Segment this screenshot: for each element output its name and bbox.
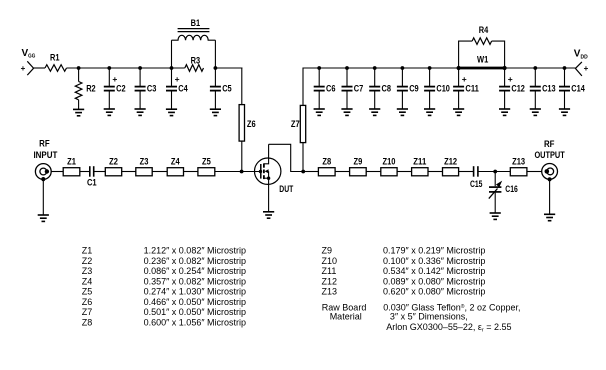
table row Z8 bbox=[82, 317, 246, 327]
ground (R2) bbox=[73, 109, 84, 115]
microstrip Z3 bbox=[136, 156, 152, 176]
node C14 junction bbox=[563, 66, 567, 70]
table row Z10 bbox=[322, 256, 486, 266]
capacitor C16 (variable) bbox=[489, 172, 518, 214]
svg-text:Z10: Z10 bbox=[383, 156, 396, 166]
svg-text:C13: C13 bbox=[542, 83, 556, 93]
svg-text:C4: C4 bbox=[178, 83, 188, 93]
svg-text:+: + bbox=[21, 64, 26, 73]
svg-text:C1: C1 bbox=[87, 178, 97, 188]
table row Raw Board Material line 2 bbox=[330, 312, 468, 322]
wire Z1 to C1 bbox=[80, 171, 90, 173]
capacitor C5 bbox=[210, 68, 232, 109]
microstrip Z5 bbox=[198, 156, 215, 176]
table row Z5 bbox=[82, 287, 246, 297]
wire Z3 to Z4 bbox=[152, 171, 167, 173]
node C13 junction bbox=[533, 66, 537, 70]
svg-text:1.212″ x 0.082″ Microstrip: 1.212″ x 0.082″ Microstrip bbox=[144, 246, 246, 256]
VGG chevron connector bbox=[27, 61, 33, 75]
wire VGG to R1 bbox=[34, 67, 45, 69]
capacitor C13 bbox=[530, 68, 556, 109]
svg-text:DUT: DUT bbox=[279, 184, 293, 194]
wire input connector to ground bbox=[42, 179, 44, 215]
ground (C5) bbox=[210, 109, 221, 115]
wire VDD rail to Z7 bbox=[302, 68, 304, 106]
ground (C6) bbox=[314, 109, 325, 115]
svg-text:Z1: Z1 bbox=[67, 156, 76, 166]
microstrip Z6 bbox=[239, 105, 256, 142]
capacitor C4 bbox=[166, 68, 188, 109]
ground (RF input) bbox=[38, 215, 49, 221]
svg-text:0.236″ x 0.082″ Microstrip: 0.236″ x 0.082″ Microstrip bbox=[144, 256, 246, 266]
ground (C11) bbox=[453, 109, 464, 115]
resistor R2 bbox=[75, 68, 95, 109]
VDD chevron connector bbox=[575, 62, 582, 76]
svg-text:Z11: Z11 bbox=[413, 156, 426, 166]
microstrip Z11 bbox=[412, 156, 428, 176]
ground (C14) bbox=[559, 109, 570, 115]
wire C5 junction to Z6 bbox=[215, 67, 242, 69]
svg-text:0.600″ x 1.056″ Microstrip: 0.600″ x 1.056″ Microstrip bbox=[144, 317, 246, 327]
capacitor C12 bbox=[499, 68, 525, 109]
svg-text:Z4: Z4 bbox=[82, 276, 93, 286]
svg-text:Z9: Z9 bbox=[322, 246, 333, 256]
resistor R1 bbox=[45, 53, 67, 72]
wire Z8 to Z9 bbox=[335, 171, 350, 173]
svg-text:Z2: Z2 bbox=[109, 156, 118, 166]
svg-text:Z2: Z2 bbox=[82, 256, 93, 266]
svg-text:Z5: Z5 bbox=[82, 287, 93, 297]
svg-text:OUTPUT: OUTPUT bbox=[534, 150, 565, 160]
node C4/B1 junction bbox=[170, 66, 174, 70]
node C12/W1/R4 junction bbox=[503, 66, 507, 70]
table row Z12 bbox=[322, 276, 486, 286]
microstrip Z7 bbox=[291, 105, 306, 142]
table row Z3 bbox=[82, 266, 246, 276]
microstrip Z1 bbox=[63, 156, 80, 176]
svg-text:Z10: Z10 bbox=[322, 256, 338, 266]
capacitor C3 bbox=[135, 68, 157, 109]
svg-text:Z4: Z4 bbox=[171, 156, 180, 166]
wire R4 loop right bbox=[492, 41, 505, 68]
node C16 junction bbox=[493, 170, 497, 174]
wire Z11 to Z12 bbox=[428, 171, 443, 173]
svg-text:C8: C8 bbox=[382, 83, 392, 93]
capacitor C14 bbox=[559, 68, 585, 109]
svg-text:+: + bbox=[175, 74, 180, 84]
wire Z6 to gate line bbox=[241, 141, 243, 171]
node drain/Z7 junction bbox=[301, 170, 305, 174]
table row Z4 bbox=[82, 276, 246, 286]
svg-text:+: + bbox=[112, 74, 117, 84]
svg-text:0.274″ x 1.030″ Microstrip: 0.274″ x 1.030″ Microstrip bbox=[144, 287, 246, 297]
svg-text:RF: RF bbox=[39, 139, 50, 149]
ground (C3) bbox=[135, 109, 146, 115]
table row Z1 bbox=[82, 246, 246, 256]
wire C15 to Z13 bbox=[478, 171, 510, 173]
svg-text:R4: R4 bbox=[479, 25, 489, 35]
ground (C13) bbox=[530, 109, 541, 115]
resistor R4 bbox=[472, 25, 492, 44]
svg-text:C15: C15 bbox=[470, 179, 483, 189]
svg-text:C9: C9 bbox=[409, 83, 419, 93]
svg-text:C5: C5 bbox=[222, 83, 232, 93]
ground (C16) bbox=[490, 213, 501, 219]
svg-text:C7: C7 bbox=[354, 83, 364, 93]
svg-text:0.357″ x 0.082″ Microstrip: 0.357″ x 0.082″ Microstrip bbox=[144, 276, 246, 286]
node C2 junction bbox=[107, 66, 111, 70]
microstrip Z2 bbox=[105, 156, 121, 176]
wire B1 right leg bbox=[214, 40, 216, 68]
svg-text:Z6: Z6 bbox=[82, 297, 93, 307]
svg-text:Material: Material bbox=[330, 312, 362, 322]
capacitor C7 bbox=[342, 68, 364, 109]
resistor R3 bbox=[185, 55, 204, 71]
svg-text:W1: W1 bbox=[477, 55, 488, 65]
svg-text:R3: R3 bbox=[191, 55, 201, 65]
wire C1 to Z2 bbox=[94, 171, 105, 173]
svg-text:Arlon GX0300–55–22, εr = 2.55: Arlon GX0300–55–22, εr = 2.55 bbox=[386, 322, 511, 334]
ground (C10) bbox=[424, 109, 435, 115]
wire Z7 to drain junction bbox=[302, 143, 304, 172]
table row Z9 bbox=[322, 246, 486, 256]
svg-text:0.089″ x 0.080″ Microstrip: 0.089″ x 0.080″ Microstrip bbox=[383, 276, 485, 286]
microstrip Z8 bbox=[318, 156, 335, 176]
wire R1 to R3 (VGG rail) bbox=[67, 67, 185, 69]
ground (C12) bbox=[499, 109, 510, 115]
svg-text:C6: C6 bbox=[326, 83, 336, 93]
svg-text:0.620″ x 0.080″ Microstrip: 0.620″ x 0.080″ Microstrip bbox=[383, 287, 485, 297]
svg-text:Z13: Z13 bbox=[512, 156, 525, 166]
node C6 junction bbox=[317, 66, 321, 70]
svg-text:Z7: Z7 bbox=[291, 119, 300, 129]
svg-text:C16: C16 bbox=[505, 184, 518, 194]
svg-text:Z7: Z7 bbox=[82, 307, 93, 317]
table row Z6 bbox=[82, 297, 246, 307]
node C3 junction bbox=[138, 66, 142, 70]
wire Z9 to Z10 bbox=[366, 171, 381, 173]
svg-text:+: + bbox=[584, 64, 589, 73]
ground (RF output) bbox=[544, 214, 555, 220]
RF output coaxial connector bbox=[542, 164, 558, 182]
node Z6/gate junction bbox=[240, 170, 244, 174]
table row Z13 bbox=[322, 287, 486, 297]
svg-text:0.501″ x 0.050″ Microstrip: 0.501″ x 0.050″ Microstrip bbox=[144, 307, 246, 317]
node C5/B1 junction bbox=[214, 66, 218, 70]
wire Z10 to Z11 bbox=[397, 171, 412, 173]
microstrip Z12 bbox=[443, 156, 459, 176]
table row Z11 bbox=[322, 266, 486, 276]
svg-text:C11: C11 bbox=[465, 83, 479, 93]
wire DUT drain to Z7 junction bbox=[269, 144, 304, 171]
svg-text:C14: C14 bbox=[571, 83, 585, 93]
svg-text:0.179″ x 0.219″ Microstrip: 0.179″ x 0.219″ Microstrip bbox=[383, 246, 485, 256]
svg-text:R1: R1 bbox=[50, 53, 60, 63]
capacitor C6 bbox=[314, 68, 336, 109]
table row Raw Board Material line 1 bbox=[322, 303, 521, 313]
microstrip Z4 bbox=[167, 156, 183, 176]
svg-text:Z8: Z8 bbox=[322, 156, 331, 166]
svg-text:Z3: Z3 bbox=[82, 266, 93, 276]
capacitor C15 bbox=[470, 166, 483, 189]
wire B1 left leg bbox=[171, 40, 173, 68]
jumper W1 (heavy wire) bbox=[459, 55, 505, 68]
table row Z7 bbox=[82, 307, 246, 317]
ground (DUT source) bbox=[263, 212, 274, 218]
svg-text:Z9: Z9 bbox=[354, 156, 363, 166]
svg-text:Z13: Z13 bbox=[322, 287, 338, 297]
node C7 junction bbox=[345, 66, 349, 70]
node C9 junction bbox=[401, 66, 405, 70]
svg-text:Z11: Z11 bbox=[322, 266, 337, 276]
microstrip Z9 bbox=[350, 156, 367, 176]
microstrip Z10 bbox=[381, 156, 397, 176]
svg-text:RF: RF bbox=[544, 139, 555, 149]
wire Z4 to Z5 bbox=[184, 171, 198, 173]
wire Z2 to Z3 bbox=[122, 171, 136, 173]
svg-text:Z12: Z12 bbox=[444, 156, 457, 166]
svg-text:3″ x 5″ Dimensions,: 3″ x 5″ Dimensions, bbox=[390, 312, 468, 322]
wire R4 loop left bbox=[459, 41, 473, 68]
ground (C8) bbox=[369, 109, 380, 115]
capacitor C2 bbox=[104, 68, 126, 109]
ground (C2) bbox=[104, 109, 115, 115]
svg-text:Z1: Z1 bbox=[82, 246, 93, 256]
svg-text:Z6: Z6 bbox=[247, 119, 256, 129]
RF input coaxial connector bbox=[35, 164, 51, 182]
svg-text:C3: C3 bbox=[147, 83, 157, 93]
svg-text:0.466″ x 0.050″ Microstrip: 0.466″ x 0.050″ Microstrip bbox=[144, 297, 246, 307]
svg-text:C12: C12 bbox=[511, 83, 525, 93]
ground (C9) bbox=[397, 109, 408, 115]
wire VDD rail bbox=[303, 67, 459, 69]
capacitor C1 bbox=[87, 166, 97, 187]
svg-text:Z3: Z3 bbox=[140, 156, 149, 166]
svg-text:0.086″ x 0.254″ Microstrip: 0.086″ x 0.254″ Microstrip bbox=[144, 266, 246, 276]
table row Raw Board Material line 3 bbox=[386, 322, 511, 334]
svg-text:Z12: Z12 bbox=[322, 276, 338, 286]
wire Z12 to C15 bbox=[459, 171, 474, 173]
capacitor C9 bbox=[397, 68, 419, 109]
transistor DUT (MOSFET) bbox=[255, 144, 294, 212]
svg-text:Z8: Z8 bbox=[82, 317, 93, 327]
svg-text:R2: R2 bbox=[86, 84, 96, 94]
svg-text:0.100″ x 0.336″ Microstrip: 0.100″ x 0.336″ Microstrip bbox=[383, 256, 485, 266]
capacitor C11 bbox=[453, 68, 479, 109]
svg-text:+: + bbox=[462, 74, 467, 84]
svg-text:Z5: Z5 bbox=[202, 156, 211, 166]
wire Z5 to DUT gate bbox=[215, 171, 261, 173]
inductor B1 (ferrite bead) bbox=[172, 18, 216, 68]
svg-text:0.534″ x 0.142″ Microstrip: 0.534″ x 0.142″ Microstrip bbox=[383, 266, 485, 276]
svg-text:B1: B1 bbox=[191, 18, 201, 28]
node C8 junction bbox=[373, 66, 377, 70]
wire connector to Z1 bbox=[51, 171, 63, 173]
node R2/R1 junction bbox=[77, 66, 81, 70]
ground (C4) bbox=[166, 109, 177, 115]
svg-text:INPUT: INPUT bbox=[33, 150, 57, 160]
wire output connector to ground bbox=[549, 179, 551, 214]
microstrip Z13 bbox=[510, 156, 527, 176]
capacitor C8 bbox=[369, 68, 391, 109]
node C10 junction bbox=[428, 66, 432, 70]
ground (C7) bbox=[341, 109, 352, 115]
wire drain junction to Z8 bbox=[303, 171, 318, 173]
capacitor C10 bbox=[424, 68, 450, 109]
svg-text:C10: C10 bbox=[436, 83, 450, 93]
node C11/W1/R4 junction bbox=[457, 66, 461, 70]
svg-text:+: + bbox=[508, 74, 513, 84]
wire Z13 to output connector bbox=[527, 171, 542, 173]
svg-text:C2: C2 bbox=[116, 83, 126, 93]
table row Z2 bbox=[82, 256, 246, 266]
